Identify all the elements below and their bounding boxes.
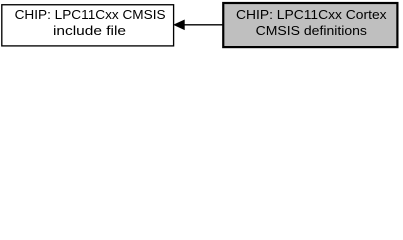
svg-text:CMSIS definitions: CMSIS definitions xyxy=(256,23,368,38)
svg-text:CHIP: LPC11Cxx Cortex: CHIP: LPC11Cxx Cortex xyxy=(236,7,387,22)
node N2: "CHIP: LPC11Cxx Cortex CMSIS definitions" (grey current node, right) xyxy=(223,3,397,47)
edge wire: N2 -> N1 horizontal line xyxy=(184,24,223,26)
svg-text:include file: include file xyxy=(53,23,126,38)
edge arrowhead pointing at N1 xyxy=(174,20,184,29)
node N1: "CHIP: LPC11Cxx CMSIS include file" (white box, left) xyxy=(2,5,174,46)
svg-text:CHIP: LPC11Cxx CMSIS: CHIP: LPC11Cxx CMSIS xyxy=(15,7,166,22)
